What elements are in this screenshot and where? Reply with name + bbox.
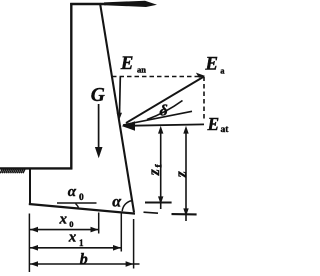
- svg-text:E: E: [204, 53, 218, 74]
- svg-text:x: x: [68, 230, 77, 246]
- svg-text:f: f: [154, 164, 164, 168]
- svg-text:1: 1: [79, 238, 84, 248]
- svg-text:E: E: [207, 114, 220, 134]
- svg-text:a: a: [220, 66, 225, 76]
- svg-text:x: x: [59, 212, 68, 228]
- svg-text:0: 0: [69, 219, 73, 229]
- svg-text:at: at: [221, 125, 230, 135]
- svg-text:z: z: [173, 171, 190, 178]
- svg-text:δ: δ: [160, 103, 168, 120]
- svg-text:G: G: [91, 85, 105, 106]
- svg-text:b: b: [80, 251, 88, 268]
- svg-text:0: 0: [79, 193, 84, 203]
- svg-text:α: α: [68, 184, 77, 200]
- svg-text:α: α: [112, 194, 122, 211]
- svg-text:an: an: [137, 64, 146, 74]
- svg-text:E: E: [120, 53, 134, 74]
- svg-text:z: z: [146, 169, 163, 176]
